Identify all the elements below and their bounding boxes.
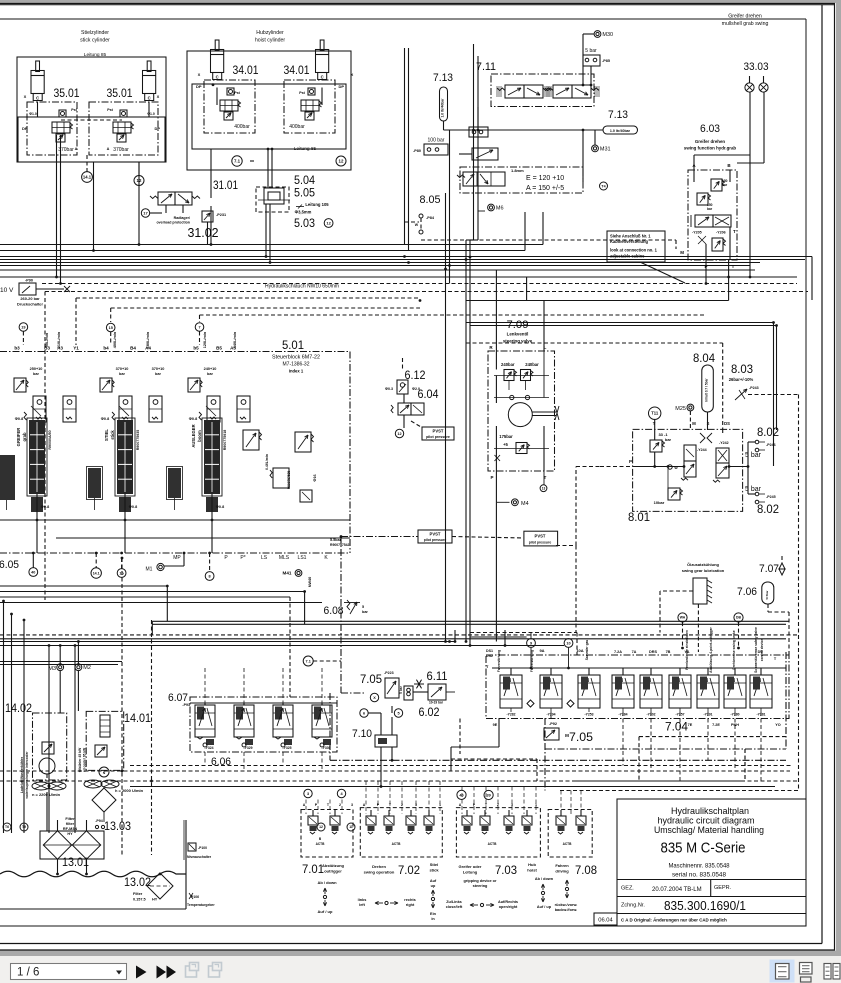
svg-text:driving: driving bbox=[555, 869, 569, 874]
svg-text:Filter: Filter bbox=[65, 817, 75, 821]
svg-text:W: W bbox=[415, 223, 419, 227]
svg-text:17: 17 bbox=[143, 210, 148, 215]
svg-text:A: A bbox=[363, 803, 366, 807]
svg-text:Zchng.Nr.: Zchng.Nr. bbox=[621, 903, 645, 909]
svg-text:12: 12 bbox=[397, 432, 401, 436]
svg-text:R900/0A/50: R900/0A/50 bbox=[48, 430, 52, 449]
svg-text:34.01: 34.01 bbox=[233, 65, 259, 77]
svg-text:7.10: 7.10 bbox=[352, 728, 372, 740]
svg-text:10A: 10A bbox=[576, 648, 583, 653]
svg-text:5 bar: 5 bar bbox=[585, 48, 597, 54]
svg-text:175bar: 175bar bbox=[499, 434, 513, 439]
svg-text:serial no. 835.0548: serial no. 835.0548 bbox=[672, 872, 727, 879]
svg-text:oil cooler 65 kW: oil cooler 65 kW bbox=[83, 748, 87, 772]
svg-text:5 bar: 5 bar bbox=[399, 685, 403, 693]
svg-text:8.04: 8.04 bbox=[693, 353, 716, 365]
svg-text:Hubzylinder: Hubzylinder bbox=[256, 30, 284, 36]
svg-text:filter: filter bbox=[66, 822, 75, 826]
svg-text:Φ0.8: Φ0.8 bbox=[41, 505, 49, 509]
svg-text:-P246: -P246 bbox=[766, 443, 776, 447]
svg-text:Φ2.0: Φ2.0 bbox=[412, 387, 420, 391]
svg-text:rechts: rechts bbox=[404, 898, 415, 902]
svg-text:7.1: 7.1 bbox=[234, 159, 241, 164]
svg-text:Sammler gas: Sammler gas bbox=[585, 640, 589, 661]
svg-text:R900775918: R900775918 bbox=[223, 430, 227, 451]
svg-text:14.1: 14.1 bbox=[83, 175, 92, 180]
svg-text:outrigger: outrigger bbox=[324, 869, 342, 874]
svg-text:7.13: 7.13 bbox=[433, 72, 453, 84]
svg-text:8.02: 8.02 bbox=[757, 504, 779, 516]
svg-text:A = 150 +/-5: A = 150 +/-5 bbox=[526, 185, 564, 192]
svg-text:5.05: 5.05 bbox=[294, 188, 315, 200]
svg-text:-Y282: -Y282 bbox=[506, 713, 515, 717]
svg-text:370+10: 370+10 bbox=[116, 367, 129, 371]
svg-text:6.02: 6.02 bbox=[419, 707, 440, 719]
svg-text:9E: 9E bbox=[493, 723, 498, 727]
svg-text:Φ1.0: Φ1.0 bbox=[147, 112, 155, 116]
svg-text:Pst: Pst bbox=[234, 91, 240, 95]
svg-text:pilot pressure: pilot pressure bbox=[426, 435, 450, 439]
svg-text:Auf/Rechts: Auf/Rechts bbox=[498, 900, 518, 904]
svg-text:10: 10 bbox=[566, 641, 570, 645]
svg-text:-Y325: -Y325 bbox=[282, 746, 291, 750]
svg-text:240+10: 240+10 bbox=[204, 367, 217, 371]
svg-text:DP: DP bbox=[154, 126, 160, 131]
svg-text:Greifer oder: Greifer oder bbox=[459, 864, 482, 869]
svg-text:DRS: DRS bbox=[649, 650, 657, 654]
svg-text:MP: MP bbox=[173, 555, 181, 561]
svg-text:8.02: 8.02 bbox=[757, 427, 779, 439]
svg-text:26bar+/-10%: 26bar+/-10% bbox=[729, 377, 754, 382]
svg-text:D9: D9 bbox=[758, 650, 763, 654]
svg-text:PVST: PVST bbox=[535, 534, 546, 539]
svg-text:-P94: -P94 bbox=[95, 819, 103, 823]
svg-text:M: M bbox=[692, 421, 696, 426]
svg-text:M3: M3 bbox=[48, 666, 56, 672]
svg-text:T: T bbox=[389, 803, 392, 807]
svg-text:R: R bbox=[489, 345, 493, 350]
svg-text:stick cylinder: stick cylinder bbox=[80, 38, 110, 44]
svg-text:gripping device or: gripping device or bbox=[464, 879, 497, 883]
svg-text:AUSLEGER: AUSLEGER bbox=[191, 424, 196, 447]
svg-text:Druckschalter: Druckschalter bbox=[17, 302, 43, 307]
svg-text:19: 19 bbox=[21, 325, 25, 329]
svg-text:7.08: 7.08 bbox=[575, 865, 597, 877]
svg-text:P: P bbox=[704, 264, 707, 269]
svg-text:120L/min: 120L/min bbox=[203, 331, 207, 348]
svg-text:LS1: LS1 bbox=[298, 555, 307, 561]
svg-text:-Y330: -Y330 bbox=[321, 746, 330, 750]
svg-text:Ein: Ein bbox=[430, 912, 437, 916]
svg-text:7.05: 7.05 bbox=[569, 732, 593, 744]
svg-text:10 V: 10 V bbox=[0, 287, 14, 294]
svg-text:Index 1: Index 1 bbox=[289, 369, 304, 374]
svg-text:Stielzylinder: Stielzylinder bbox=[81, 30, 109, 36]
svg-text:bar: bar bbox=[722, 183, 728, 187]
svg-text:B: B bbox=[319, 837, 322, 841]
svg-text:Niveauschalter: Niveauschalter bbox=[187, 855, 212, 859]
svg-text:P*: P* bbox=[240, 555, 245, 561]
svg-text:6: 6 bbox=[363, 711, 365, 715]
svg-text:-P93: -P93 bbox=[182, 703, 190, 707]
svg-text:HY: HY bbox=[67, 832, 73, 836]
svg-text:-Y242: -Y242 bbox=[719, 441, 729, 445]
svg-text:14.01: 14.01 bbox=[124, 713, 151, 725]
svg-text:Hydraulikschaltplan: Hydraulikschaltplan bbox=[671, 806, 749, 816]
svg-text:YO: YO bbox=[775, 723, 781, 727]
svg-text:7.1: 7.1 bbox=[306, 659, 311, 663]
svg-text:35.01: 35.01 bbox=[107, 88, 133, 100]
svg-text:boom: boom bbox=[197, 430, 202, 442]
svg-text:swing function hydr.grab: swing function hydr.grab bbox=[684, 146, 737, 151]
svg-text:13.02: 13.02 bbox=[124, 877, 151, 889]
svg-text:A: A bbox=[303, 803, 306, 807]
svg-text:DS1: DS1 bbox=[486, 649, 493, 653]
svg-text:water/supercharger intercooler: water/supercharger intercooler bbox=[25, 751, 29, 800]
svg-text:LS: LS bbox=[261, 555, 268, 561]
svg-text:Φ1.0: Φ1.0 bbox=[29, 112, 37, 116]
svg-text:GEPR.: GEPR. bbox=[714, 885, 732, 891]
svg-text:bar: bar bbox=[362, 610, 368, 614]
svg-text:Pst: Pst bbox=[71, 108, 77, 112]
svg-text:Greifer drehen: Greifer drehen bbox=[695, 139, 726, 144]
svg-text:-P223: -P223 bbox=[384, 671, 394, 675]
svg-text:DS: DS bbox=[724, 421, 730, 426]
svg-text:180L/min: 180L/min bbox=[146, 331, 150, 348]
svg-text:8.01: 8.01 bbox=[628, 512, 650, 524]
svg-text:Pst: Pst bbox=[107, 108, 113, 112]
svg-text:C: C bbox=[216, 75, 219, 80]
svg-text:R900757595: R900757595 bbox=[287, 471, 291, 489]
svg-text:10-19 bar: 10-19 bar bbox=[429, 701, 444, 705]
svg-text:RF-M3N: RF-M3N bbox=[63, 827, 78, 831]
svg-text:close/left: close/left bbox=[446, 905, 463, 909]
svg-text:370+10: 370+10 bbox=[152, 367, 165, 371]
svg-text:T: T bbox=[327, 803, 330, 807]
svg-text:ACTB: ACTB bbox=[316, 842, 326, 846]
svg-text:GEZ.: GEZ. bbox=[621, 886, 634, 892]
svg-text:Φ0.8: Φ0.8 bbox=[129, 505, 137, 509]
svg-text:mullshell grab swing: mullshell grab swing bbox=[722, 21, 769, 27]
svg-text:Auf / up: Auf / up bbox=[318, 909, 333, 914]
svg-text:P: P bbox=[490, 475, 493, 480]
svg-text:15: 15 bbox=[109, 326, 113, 330]
svg-text:7.02: 7.02 bbox=[398, 865, 420, 877]
svg-text:right: right bbox=[406, 903, 415, 907]
svg-text:DP: DP bbox=[338, 84, 344, 89]
svg-text:Kabinenverstellung: Kabinenverstellung bbox=[610, 239, 648, 244]
svg-text:Greifer drehen: Greifer drehen bbox=[728, 14, 762, 20]
svg-text:stick: stick bbox=[429, 868, 439, 873]
svg-text:13.03: 13.03 bbox=[104, 821, 131, 833]
svg-text:Hydraulikschlauch NW10 650mm: Hydraulikschlauch NW10 650mm bbox=[265, 284, 339, 290]
svg-text:Φ0.8: Φ0.8 bbox=[189, 417, 197, 421]
svg-text:C: C bbox=[36, 96, 39, 101]
svg-text:13.01: 13.01 bbox=[62, 857, 89, 869]
svg-text:12: 12 bbox=[319, 825, 323, 829]
svg-text:90L/min: 90L/min bbox=[45, 332, 49, 347]
svg-text:M1: M1 bbox=[146, 567, 153, 573]
svg-text:A: A bbox=[107, 147, 110, 151]
svg-text:DB: DB bbox=[736, 616, 741, 620]
svg-text:40: 40 bbox=[31, 570, 35, 574]
svg-text:M25: M25 bbox=[675, 406, 686, 412]
svg-text:400bar: 400bar bbox=[289, 124, 305, 130]
svg-text:up: up bbox=[431, 884, 436, 888]
svg-text:31.02: 31.02 bbox=[188, 226, 219, 240]
svg-text:M: M bbox=[680, 250, 684, 255]
svg-text:X: X bbox=[351, 72, 354, 77]
svg-text:swing gear lubrication: swing gear lubrication bbox=[682, 568, 725, 573]
svg-text:T: T bbox=[732, 264, 735, 269]
svg-text:Φ0.8: Φ0.8 bbox=[101, 417, 109, 421]
svg-text:K: K bbox=[324, 555, 328, 561]
svg-text:835.300.1690/1: 835.300.1690/1 bbox=[664, 898, 746, 913]
svg-text:A: A bbox=[75, 147, 78, 151]
svg-text:overload protection: overload protection bbox=[156, 221, 190, 225]
svg-text:ACTB: ACTB bbox=[563, 842, 573, 846]
svg-text:14.02: 14.02 bbox=[5, 703, 32, 715]
svg-text:12: 12 bbox=[326, 220, 331, 225]
svg-text:X: X bbox=[24, 94, 27, 99]
svg-text:C: C bbox=[321, 75, 324, 80]
svg-text:bar: bar bbox=[119, 372, 125, 376]
svg-text:-P231: -P231 bbox=[216, 213, 226, 217]
svg-text:P: P bbox=[224, 555, 228, 561]
svg-text:5l 5bar: 5l 5bar bbox=[765, 590, 769, 600]
svg-text:X: X bbox=[198, 72, 201, 77]
svg-text:E = 120 +10: E = 120 +10 bbox=[526, 175, 564, 182]
svg-text:10bar: 10bar bbox=[654, 500, 665, 505]
svg-text:7.2A: 7.2A bbox=[614, 650, 622, 654]
svg-text:7.03: 7.03 bbox=[495, 865, 517, 877]
svg-text:Filter: Filter bbox=[133, 892, 143, 896]
svg-text:bar: bar bbox=[155, 372, 161, 376]
svg-text:Lenkventil: Lenkventil bbox=[507, 332, 529, 337]
svg-text:7.05: 7.05 bbox=[360, 674, 382, 686]
svg-text:400L/min: 400L/min bbox=[113, 331, 117, 348]
svg-text:hydraulic circuit diagram: hydraulic circuit diagram bbox=[658, 816, 755, 826]
svg-text:Auf / up: Auf / up bbox=[537, 905, 552, 909]
svg-text:250+10: 250+10 bbox=[30, 367, 43, 371]
svg-text:bar: bar bbox=[207, 372, 213, 376]
svg-text:1 / 6: 1 / 6 bbox=[17, 967, 39, 979]
svg-text:9A: 9A bbox=[539, 648, 544, 653]
svg-text:0.46L/min: 0.46L/min bbox=[265, 454, 269, 470]
svg-text:7B: 7B bbox=[666, 650, 671, 654]
svg-text:7.13: 7.13 bbox=[608, 109, 628, 121]
svg-text:h = 2000 U/min: h = 2000 U/min bbox=[115, 788, 144, 793]
svg-text:6.05: 6.05 bbox=[0, 559, 19, 571]
svg-text:bar: bar bbox=[665, 437, 672, 442]
svg-text:PVST: PVST bbox=[430, 532, 441, 537]
svg-text:240bar: 240bar bbox=[501, 362, 515, 367]
svg-text:-P100: -P100 bbox=[198, 846, 207, 850]
svg-text:Zu/Links: Zu/Links bbox=[446, 900, 462, 904]
svg-text:B5: B5 bbox=[216, 346, 222, 351]
svg-text:8.05: 8.05 bbox=[420, 194, 441, 206]
svg-text:R900757542: R900757542 bbox=[330, 543, 350, 547]
svg-text:A: A bbox=[459, 803, 462, 807]
svg-text:PVST: PVST bbox=[433, 429, 444, 434]
svg-text:Ladeluft/Wasserkühler: Ladeluft/Wasserkühler bbox=[20, 756, 24, 793]
svg-text:T6: T6 bbox=[5, 825, 9, 829]
svg-text:5.03: 5.03 bbox=[294, 218, 315, 230]
svg-text:look at connection no. 1: look at connection no. 1 bbox=[610, 248, 658, 253]
svg-text:-Y253: -Y253 bbox=[584, 713, 593, 717]
svg-text:210L/min: 210L/min bbox=[57, 331, 61, 348]
svg-text:340L/min: 340L/min bbox=[233, 331, 237, 348]
svg-text:Steuerblock 6M7-22: Steuerblock 6M7-22 bbox=[272, 355, 320, 361]
svg-text:12: 12 bbox=[137, 178, 142, 183]
svg-text:Φ0.3: Φ0.3 bbox=[385, 387, 393, 391]
svg-text:2: 2 bbox=[339, 803, 341, 807]
svg-text:-P92: -P92 bbox=[549, 722, 557, 726]
svg-text:7A: 7A bbox=[632, 650, 637, 654]
svg-text:WA: WA bbox=[680, 616, 686, 620]
svg-text:-Y205: -Y205 bbox=[692, 231, 702, 235]
svg-text:5.04: 5.04 bbox=[294, 175, 316, 187]
svg-text:-P84: -P84 bbox=[426, 216, 435, 220]
svg-text:11: 11 bbox=[349, 825, 353, 829]
svg-text:20.07.2004 TB-LM: 20.07.2004 TB-LM bbox=[652, 887, 702, 893]
svg-text:40: 40 bbox=[459, 793, 463, 797]
svg-text:steering valve: steering valve bbox=[503, 339, 533, 344]
svg-text:grab: grab bbox=[22, 432, 27, 442]
svg-text:P: P bbox=[629, 459, 632, 464]
svg-text:7.2E: 7.2E bbox=[712, 723, 720, 727]
svg-text:3: 3 bbox=[351, 803, 353, 807]
svg-text:7.04: 7.04 bbox=[665, 722, 689, 734]
svg-text:NW40: NW40 bbox=[308, 577, 312, 588]
svg-text:Φ0.8: Φ0.8 bbox=[216, 505, 224, 509]
svg-text:hoist cylinder: hoist cylinder bbox=[255, 38, 286, 44]
svg-text:Ölzusatzkühlung: Ölzusatzkühlung bbox=[687, 562, 720, 567]
svg-text:1.0 ltr/40bar: 1.0 ltr/40bar bbox=[610, 129, 631, 133]
svg-text:100 bar: 100 bar bbox=[428, 138, 445, 144]
svg-text:in: in bbox=[431, 917, 435, 921]
svg-text:5: 5 bbox=[397, 711, 399, 715]
svg-text:7.06: 7.06 bbox=[737, 586, 757, 598]
svg-text:-Y244: -Y244 bbox=[697, 448, 707, 452]
svg-text:B: B bbox=[727, 163, 731, 168]
svg-text:7.01: 7.01 bbox=[302, 864, 324, 876]
svg-text:400bar: 400bar bbox=[234, 124, 250, 130]
svg-text:MLS: MLS bbox=[279, 555, 290, 561]
svg-text:T4: T4 bbox=[601, 184, 605, 188]
svg-text:34.01: 34.01 bbox=[284, 65, 310, 77]
svg-text:M7-1386-32: M7-1386-32 bbox=[283, 362, 310, 368]
svg-text:Y1: Y1 bbox=[73, 346, 79, 351]
svg-text:7E: 7E bbox=[688, 723, 693, 727]
svg-text:-P80: -P80 bbox=[413, 149, 421, 153]
svg-text:C A D Original: Änderungen nur: C A D Original: Änderungen nur über CAD … bbox=[621, 918, 727, 923]
svg-text:bar: bar bbox=[707, 207, 713, 211]
svg-text:-P90: -P90 bbox=[25, 279, 33, 283]
svg-text:M31: M31 bbox=[600, 146, 611, 152]
svg-text:open/right: open/right bbox=[499, 905, 518, 909]
svg-text:-Y324: -Y324 bbox=[204, 746, 213, 750]
svg-text:Ab / down: Ab / down bbox=[317, 880, 337, 885]
svg-text:Abstützung 4-point-outrigger: Abstützung 4-point-outrigger bbox=[709, 626, 713, 672]
svg-text:b3: b3 bbox=[14, 346, 20, 351]
svg-text:14.1: 14.1 bbox=[93, 571, 100, 575]
svg-text:7.09: 7.09 bbox=[507, 319, 529, 331]
svg-text:ACTB: ACTB bbox=[392, 842, 402, 846]
svg-text:6.11: 6.11 bbox=[427, 671, 448, 683]
svg-text:C: C bbox=[148, 96, 151, 101]
svg-text:8.03: 8.03 bbox=[731, 364, 753, 376]
svg-text:VA: VA bbox=[685, 650, 690, 654]
svg-text:Φ16: Φ16 bbox=[313, 474, 317, 481]
svg-text:+5: +5 bbox=[503, 442, 508, 447]
svg-text:13: 13 bbox=[542, 486, 546, 490]
svg-text:Siehe Anschluß Nr. 1: Siehe Anschluß Nr. 1 bbox=[610, 234, 651, 239]
svg-text:M6: M6 bbox=[496, 206, 504, 212]
svg-text:6.03: 6.03 bbox=[700, 123, 720, 135]
svg-text:X: X bbox=[157, 94, 160, 99]
svg-text:-Y329: -Y329 bbox=[243, 746, 252, 750]
svg-text:PNH: PNH bbox=[731, 723, 739, 727]
svg-text:5.5bar: 5.5bar bbox=[330, 538, 342, 542]
svg-text:Ölkühler 45 kW: Ölkühler 45 kW bbox=[77, 747, 82, 772]
svg-text:3: 3 bbox=[307, 792, 309, 796]
svg-text:b4: b4 bbox=[103, 346, 109, 351]
svg-text:31.01: 31.01 bbox=[213, 180, 238, 192]
svg-text:steering: steering bbox=[473, 884, 488, 888]
svg-text:B4: B4 bbox=[130, 346, 136, 351]
svg-text:Maschinennr. 835.0548: Maschinennr. 835.0548 bbox=[669, 863, 731, 870]
svg-text:7.07: 7.07 bbox=[759, 563, 779, 575]
svg-text:370bar: 370bar bbox=[113, 147, 129, 153]
svg-text:6.06: 6.06 bbox=[211, 756, 231, 768]
svg-text:Leitung 105: Leitung 105 bbox=[305, 202, 329, 207]
svg-text:Z: Z bbox=[497, 803, 500, 807]
svg-text:06.04: 06.04 bbox=[598, 918, 613, 924]
svg-text:-P85: -P85 bbox=[602, 59, 610, 63]
svg-text:N: N bbox=[103, 771, 106, 775]
svg-text:370bar: 370bar bbox=[58, 147, 74, 153]
svg-text:pilot pressure: pilot pressure bbox=[424, 538, 447, 542]
svg-text:Fahren: Fahren bbox=[555, 863, 569, 868]
svg-text:T: T bbox=[733, 229, 736, 234]
svg-text:12: 12 bbox=[339, 159, 344, 164]
svg-text:9: 9 bbox=[530, 641, 532, 645]
svg-text:Φ0.8: Φ0.8 bbox=[15, 417, 23, 421]
svg-text:Ab / down: Ab / down bbox=[535, 877, 554, 881]
svg-text:DP: DP bbox=[196, 84, 202, 89]
svg-text:240bar: 240bar bbox=[525, 362, 539, 367]
svg-text:1.0 ltr/40bar: 1.0 ltr/40bar bbox=[441, 98, 445, 118]
svg-text:stick: stick bbox=[110, 430, 115, 440]
svg-text:Hub: Hub bbox=[528, 862, 536, 867]
svg-text:GREIFER: GREIFER bbox=[16, 428, 21, 447]
svg-text:HY: HY bbox=[152, 898, 158, 902]
svg-text:b5: b5 bbox=[193, 346, 199, 351]
svg-text:Drehbremse swing brake: Drehbremse swing brake bbox=[732, 630, 736, 669]
svg-text:8: 8 bbox=[209, 574, 211, 578]
svg-text:swing operation: swing operation bbox=[364, 870, 395, 875]
svg-text:-Y206: -Y206 bbox=[716, 231, 726, 235]
svg-text:Drehen: Drehen bbox=[372, 864, 386, 869]
svg-text:hoist: hoist bbox=[527, 868, 537, 873]
svg-text:P: P bbox=[315, 803, 318, 807]
svg-text:n = 2200 U/min: n = 2200 U/min bbox=[32, 792, 61, 797]
svg-text:STIEL: STIEL bbox=[104, 429, 109, 441]
svg-text:7.11: 7.11 bbox=[476, 61, 496, 73]
svg-text:260-20 bar: 260-20 bar bbox=[20, 296, 40, 301]
svg-text:Radlager/: Radlager/ bbox=[174, 216, 190, 220]
